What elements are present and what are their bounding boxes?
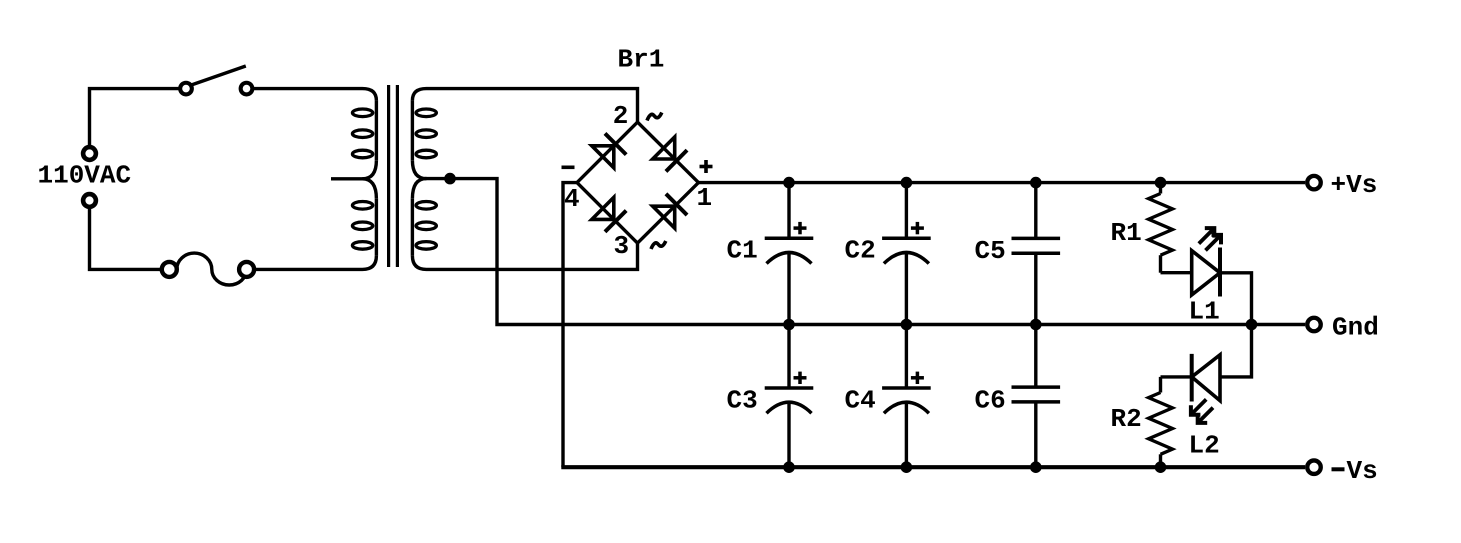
wire Gnd to L2 [1220,325,1252,377]
capacitor C2 [845,183,931,325]
wire [90,201,162,270]
L2 emission arrows [1191,399,1213,423]
plus mark [794,222,807,234]
svg-text:Br1: Br1 [618,45,665,75]
wire [254,256,376,270]
wire secondary top to bridge pin 2 [412,89,637,123]
terminal +Vs [1307,176,1321,190]
L1 emission arrows [1199,228,1221,250]
svg-text:R2: R2 [1111,404,1142,434]
svg-text:1: 1 [697,183,713,213]
LED L1 [1192,248,1220,297]
LED L2 [1192,354,1220,402]
svg-text:C3: C3 [727,386,758,416]
svg-text:Vs: Vs [1347,456,1378,486]
plus mark [911,372,924,384]
svg-text:3: 3 [614,231,630,261]
wire secondary bottom to bridge pin 3 [412,243,637,269]
wire [90,89,181,154]
transformer T1 core [389,85,398,267]
diode Br1 arm 2-1 [653,137,687,171]
plus mark [911,222,924,234]
wire secondary center tap to Gnd rail [425,179,1305,325]
transformer T1 primary winding [331,101,376,256]
resistor R1 [1149,183,1173,273]
svg-text:110VAC: 110VAC [38,161,132,191]
svg-text:C6: C6 [975,386,1006,416]
capacitor C6 [975,325,1061,468]
terminal 110VAC bottom [83,194,96,207]
primary tap stub [331,177,363,180]
svg-text:L1: L1 [1189,297,1220,327]
svg-text:L2: L2 [1189,431,1220,461]
diode Br1 arm 3-1 [653,194,687,228]
bridge rectifier Br1 arms [577,122,699,243]
svg-text:C2: C2 [845,236,876,266]
svg-text:+Vs: +Vs [1331,170,1378,200]
wire L2 to R2 [1161,375,1192,378]
diode Br1 arm 4-2 [592,133,626,167]
diode Br1 arm 4-3 [592,197,626,231]
label minus pin 4 [562,166,575,170]
junction dots rails [783,177,1257,473]
transformer T1 secondary winding [412,101,436,256]
junction center tap [444,173,456,185]
terminal -Vs [1307,460,1321,474]
svg-text:C5: C5 [975,236,1006,266]
capacitor C1 [727,183,814,325]
label plus pin 1 [700,160,713,173]
terminal Gnd [1307,318,1321,332]
capacitor C5 [975,183,1061,325]
wire L1 to Gnd [1220,273,1252,325]
svg-text:4: 4 [564,184,580,214]
switch S1 [180,66,252,94]
resistor R2 [1149,377,1173,467]
terminal 110VAC top [83,147,96,160]
svg-text:2: 2 [613,101,629,131]
plus mark [794,372,807,384]
wire [252,89,376,101]
label -Vs [1332,456,1378,486]
svg-text:Gnd: Gnd [1332,313,1379,343]
wire R1 to L1 [1161,271,1192,274]
svg-text:R1: R1 [1111,218,1142,248]
label ~ bottom [651,241,666,249]
wire +Vs rail [699,181,1306,184]
svg-text:C4: C4 [845,386,876,416]
wire bridge pin 4 to -Vs rail [563,183,577,468]
label ~ top [647,113,662,121]
capacitor C4 [845,325,931,468]
svg-text:C1: C1 [727,236,758,266]
fuse F1 [162,253,254,285]
capacitor C3 [727,325,814,468]
